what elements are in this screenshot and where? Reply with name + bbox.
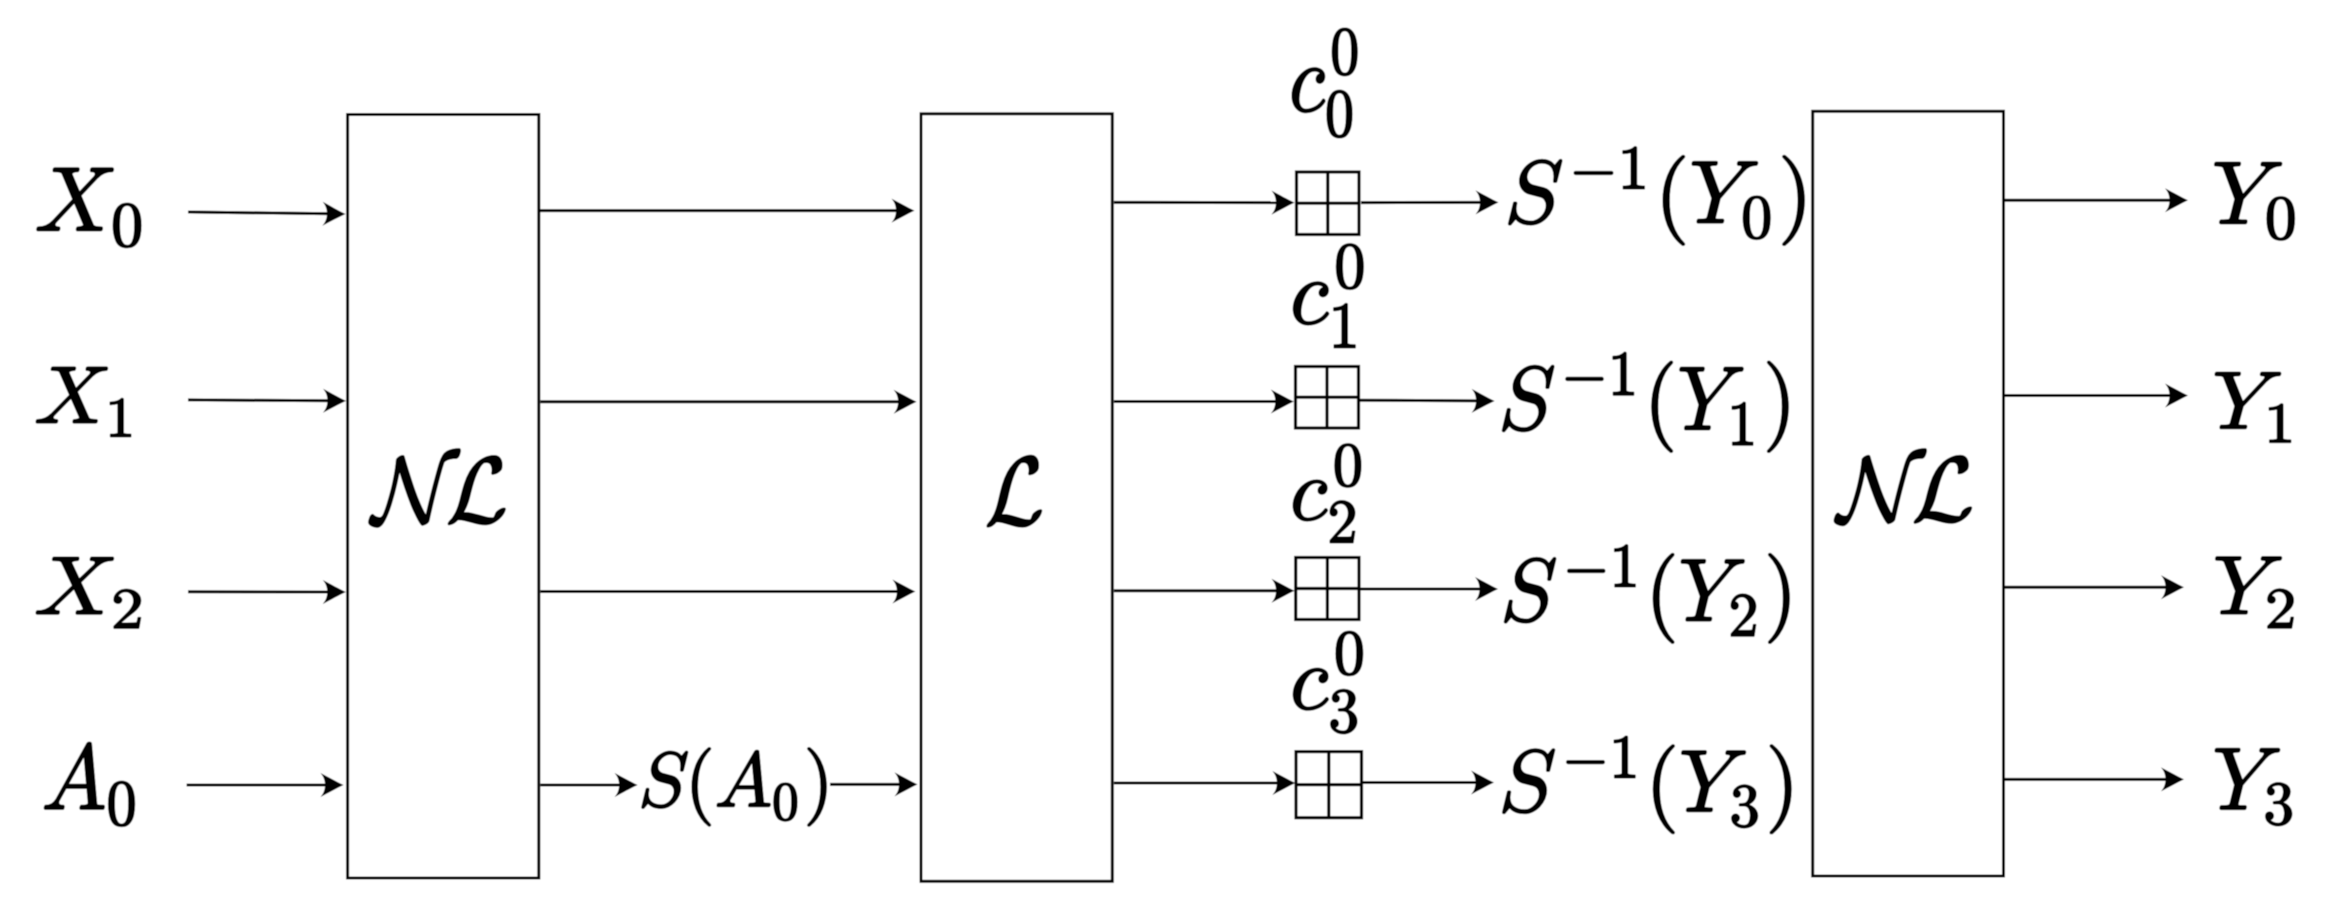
xor node c0 (key addition) bbox=[1297, 172, 1360, 235]
wire S(A0) to L arrow bbox=[830, 772, 918, 796]
constant label c1^0 bbox=[1294, 244, 1363, 348]
wire xor c2 to S-1(Y2) bbox=[1359, 577, 1498, 601]
wire L to xor c2 bbox=[1114, 579, 1295, 603]
block label L (middle box) bbox=[987, 456, 1041, 527]
wire X0 input arrow bbox=[188, 202, 346, 226]
output label Y0 bbox=[2215, 162, 2294, 239]
output label Y2 bbox=[2216, 557, 2293, 628]
xor node c2 (key addition) bbox=[1296, 558, 1359, 620]
block L (linear layer) bbox=[921, 114, 1112, 882]
node label S^-1(Y3) bbox=[1503, 736, 1791, 833]
input label X2 bbox=[36, 557, 140, 628]
wire L to xor c1 bbox=[1114, 390, 1294, 414]
constant label c3^0 bbox=[1294, 631, 1363, 733]
wire NL to L row 0 bbox=[540, 199, 915, 223]
wire NL to S(A0) arrow bbox=[540, 773, 637, 797]
input label A0 bbox=[45, 743, 135, 827]
block NL (second non-linear layer) bbox=[1813, 111, 2004, 876]
wire X2 input arrow bbox=[188, 580, 346, 604]
wire NL to Y2 output arrow bbox=[2005, 575, 2184, 599]
xor node c3 (key addition) bbox=[1296, 752, 1362, 818]
input label X1 bbox=[36, 367, 130, 436]
wire X1 input arrow bbox=[188, 389, 346, 413]
input label X0 bbox=[37, 168, 141, 247]
wire xor c3 to S-1(Y3) bbox=[1362, 771, 1494, 795]
node label S^-1(Y0) bbox=[1509, 147, 1804, 245]
wire NL to L row 1 bbox=[540, 390, 916, 414]
wire A0 input arrow bbox=[187, 773, 344, 797]
node label S(A0) bbox=[642, 748, 826, 826]
output label Y1 bbox=[2215, 373, 2290, 443]
block label NL (left box) bbox=[369, 449, 505, 527]
node label S^-1(Y1) bbox=[1503, 353, 1788, 452]
wire L to xor c3 bbox=[1114, 771, 1295, 795]
wire NL to L row 2 bbox=[540, 580, 915, 604]
wire NL to Y1 output arrow bbox=[2005, 384, 2188, 408]
wire L to xor c0 bbox=[1114, 191, 1295, 215]
wire xor c1 to S-1(Y1) bbox=[1359, 389, 1495, 413]
block label NL (right box) bbox=[1834, 449, 1971, 525]
constant label c0^0 bbox=[1292, 29, 1357, 138]
node label S^-1(Y2) bbox=[1505, 545, 1789, 643]
wire NL to Y0 output arrow bbox=[2005, 188, 2188, 212]
wire NL to Y3 output arrow bbox=[2005, 767, 2184, 791]
block NL (first non-linear layer) bbox=[348, 115, 539, 879]
output label Y3 bbox=[2215, 749, 2291, 826]
constant label c2^0 bbox=[1293, 444, 1360, 542]
xor node c1 (key addition) bbox=[1296, 367, 1359, 429]
wire xor c0 to S-1(Y0) bbox=[1361, 190, 1499, 214]
